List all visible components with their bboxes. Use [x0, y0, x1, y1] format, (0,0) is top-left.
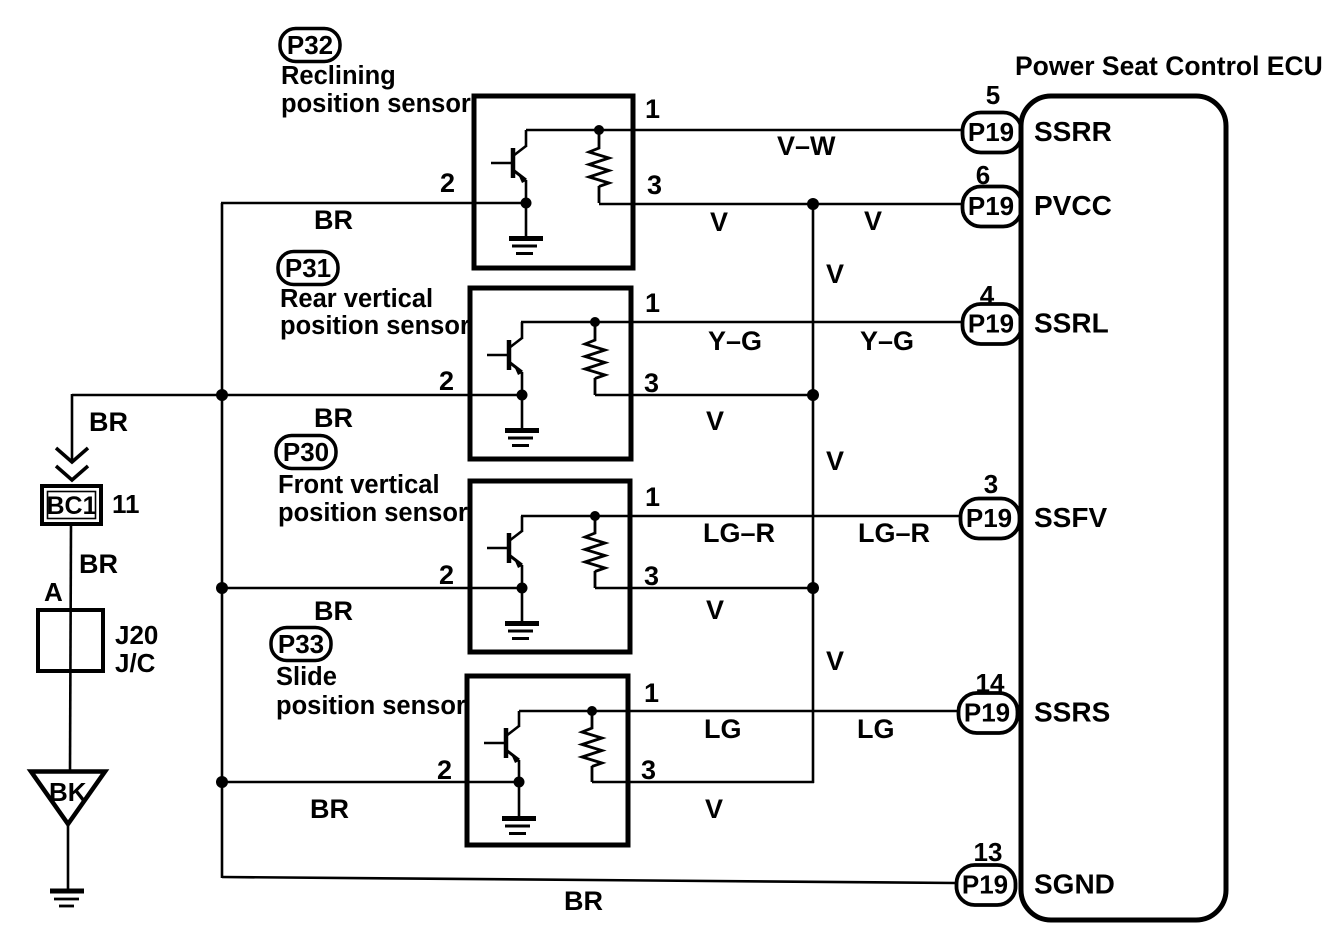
svg-text:Slide: Slide — [276, 663, 337, 691]
resistor R2 (rear-vertical sensor) — [585, 322, 605, 395]
connector arrows into BC1 — [56, 448, 88, 462]
svg-text:P31: P31 — [285, 253, 331, 283]
wire: V sensor2 pin3 to bus — [595, 394, 813, 397]
internal ground (rear-vertical sensor) — [505, 395, 539, 446]
svg-text:BR: BR — [314, 403, 353, 433]
component label oval P31 — [278, 252, 338, 285]
wire: BK to ground — [67, 822, 70, 889]
sensor box slide — [467, 676, 628, 845]
wire: V sensor3 pin3 to bus — [595, 587, 813, 590]
wire: BR bus left vertical rail — [221, 203, 224, 878]
component label oval P30 — [276, 436, 336, 469]
svg-text:V–W: V–W — [777, 131, 836, 161]
node: rail junction at sensor3 wire — [216, 582, 228, 594]
svg-text:Reclining: Reclining — [281, 62, 396, 90]
svg-text:Y–G: Y–G — [860, 326, 914, 356]
connector P19 pin 6 (PVCC) — [963, 187, 1022, 227]
wire: V sensor4 pin3 to bus corner — [592, 781, 814, 784]
emitter junction node (reclining) — [521, 198, 532, 209]
node: rail junction at sensor4 wire — [216, 776, 228, 788]
svg-text:V: V — [706, 406, 724, 436]
svg-text:position sensor: position sensor — [276, 692, 466, 720]
emitter junction node (slide) — [514, 777, 525, 788]
component label oval P32 — [280, 29, 340, 62]
svg-text:SSRL: SSRL — [1034, 308, 1109, 339]
svg-text:P19: P19 — [968, 117, 1014, 147]
svg-text:BR: BR — [564, 886, 603, 916]
svg-text:P30: P30 — [283, 437, 329, 467]
svg-text:P19: P19 — [962, 870, 1008, 900]
emitter junction node (front-vertical) — [517, 583, 528, 594]
svg-text:V: V — [705, 794, 723, 824]
svg-text:Y–G: Y–G — [708, 326, 762, 356]
svg-text:SSFV: SSFV — [1034, 502, 1107, 533]
transistor Q4 (slide position sensor) — [484, 711, 519, 782]
sensor box reclining — [474, 96, 633, 268]
svg-text:position sensor: position sensor — [280, 312, 470, 340]
internal ground (front-vertical sensor) — [505, 588, 539, 639]
sensor box rear-vertical — [470, 288, 631, 459]
connector BC1 — [42, 486, 101, 524]
svg-text:A: A — [44, 577, 63, 607]
component label oval P33 — [271, 628, 331, 661]
node: V bus top junction — [807, 198, 819, 210]
resistor R3 (front-vertical sensor) — [585, 516, 605, 588]
svg-text:BR: BR — [314, 205, 353, 235]
svg-text:4: 4 — [980, 280, 995, 310]
svg-text:2: 2 — [439, 560, 454, 590]
svg-text:Front vertical: Front vertical — [278, 471, 440, 499]
wire: V-W sensor1 pin1 to SSRR — [526, 129, 961, 132]
svg-text:3: 3 — [647, 170, 662, 200]
svg-text:P33: P33 — [278, 629, 324, 659]
svg-text:V: V — [710, 207, 728, 237]
node: resistor top junction (rear-vertical) — [590, 317, 600, 327]
svg-text:1: 1 — [645, 482, 660, 512]
svg-text:3: 3 — [644, 561, 659, 591]
sensor box front-vertical — [470, 481, 630, 652]
resistor R1 (reclining sensor) — [589, 130, 609, 203]
wire: BR from BC1 to BK through J20 — [70, 524, 71, 771]
svg-text:LG–R: LG–R — [703, 518, 775, 548]
svg-text:14: 14 — [976, 668, 1005, 698]
svg-text:SSRR: SSRR — [1034, 116, 1112, 147]
connector P19 pin 14 (SSRS) — [959, 693, 1018, 733]
node: resistor top junction (reclining) — [594, 125, 604, 135]
wire: sensor4 pin2 BR — [221, 781, 519, 784]
emitter junction node (rear-vertical) — [517, 390, 528, 401]
wire: sensor1 pin2 BR — [221, 202, 526, 205]
wire: LG sensor4 pin1 to SSRS — [519, 710, 958, 713]
svg-text:6: 6 — [976, 160, 990, 190]
svg-text:position sensor: position sensor — [281, 90, 471, 118]
connector P19 pin 3 (SSFV) — [961, 499, 1020, 539]
svg-text:3: 3 — [644, 368, 659, 398]
wire: sensor2 pin2 BR (from BC1 corner through rail) — [72, 394, 522, 397]
node: V bus junction 2 — [807, 389, 819, 401]
svg-text:P32: P32 — [287, 30, 333, 60]
transistor Q1 (reclining position sensor) — [491, 130, 526, 203]
connector P19 pin 5 (SSRR) — [963, 113, 1022, 153]
svg-text:V: V — [706, 595, 724, 625]
svg-text:11: 11 — [112, 489, 140, 519]
wire: bottom BR to SGND — [222, 877, 956, 883]
connector P19 pin 13 (SGND) — [957, 865, 1016, 905]
wire: V bus vertical — [812, 204, 815, 783]
svg-text:BR: BR — [310, 794, 349, 824]
svg-text:LG: LG — [704, 714, 742, 744]
svg-text:13: 13 — [974, 837, 1003, 867]
svg-text:V: V — [864, 206, 882, 236]
connector P19 pin 4 (SSRL) — [963, 304, 1022, 344]
svg-text:P19: P19 — [968, 309, 1014, 339]
svg-text:P19: P19 — [964, 698, 1010, 728]
internal ground (reclining sensor) — [509, 203, 543, 254]
svg-text:2: 2 — [437, 755, 452, 785]
svg-text:SSRS: SSRS — [1034, 697, 1110, 728]
node: rail junction at sensor2 wire — [216, 389, 228, 401]
svg-text:BR: BR — [314, 596, 353, 626]
wire: BR drop to BC1 — [71, 394, 74, 463]
svg-text:Rear vertical: Rear vertical — [280, 285, 433, 313]
svg-text:V: V — [826, 259, 844, 289]
svg-text:BR: BR — [79, 549, 118, 579]
svg-text:BK: BK — [49, 777, 87, 807]
svg-text:1: 1 — [645, 288, 660, 318]
svg-text:2: 2 — [440, 168, 455, 198]
node: V bus junction 3 — [807, 582, 819, 594]
svg-text:V: V — [826, 646, 844, 676]
svg-text:1: 1 — [645, 94, 660, 124]
svg-text:LG–R: LG–R — [858, 518, 930, 548]
svg-text:3: 3 — [641, 755, 656, 785]
ground lead BK triangle — [31, 772, 105, 825]
wire: Y-G sensor2 pin1 to SSRL — [521, 321, 961, 324]
node: resistor top junction (front-vertical) — [590, 511, 600, 521]
svg-text:P19: P19 — [966, 503, 1012, 533]
svg-text:Power Seat Control ECU: Power Seat Control ECU — [1015, 51, 1323, 81]
svg-text:5: 5 — [986, 80, 1000, 110]
internal ground (slide sensor) — [502, 782, 536, 834]
svg-text:3: 3 — [984, 469, 998, 499]
svg-text:P19: P19 — [968, 191, 1014, 221]
svg-text:SGND: SGND — [1034, 869, 1115, 900]
wire: sensor3 pin2 BR — [221, 587, 522, 590]
Power Seat Control ECU box — [1021, 96, 1226, 920]
svg-text:BR: BR — [89, 407, 128, 437]
resistor R4 (slide sensor) — [582, 711, 602, 782]
transistor Q3 (front-vertical position sensor) — [487, 516, 522, 588]
svg-text:V: V — [826, 446, 844, 476]
ground symbol (left) — [50, 891, 84, 906]
svg-text:J/C: J/C — [115, 648, 156, 678]
svg-text:1: 1 — [644, 678, 659, 708]
svg-text:PVCC: PVCC — [1034, 190, 1112, 221]
node: resistor top junction (slide) — [587, 706, 597, 716]
svg-text:J20: J20 — [115, 620, 158, 650]
junction connector J20 J/C — [38, 610, 103, 671]
svg-text:LG: LG — [857, 714, 895, 744]
svg-text:position sensor: position sensor — [278, 499, 468, 527]
svg-text:2: 2 — [439, 366, 454, 396]
wire: V sensor1 pin3 to PVCC — [599, 203, 961, 206]
wire: LG-R sensor3 pin1 to SSFV — [521, 515, 960, 518]
transistor Q2 (rear-vertical position sensor) — [487, 322, 522, 395]
svg-text:BC1: BC1 — [46, 492, 96, 520]
